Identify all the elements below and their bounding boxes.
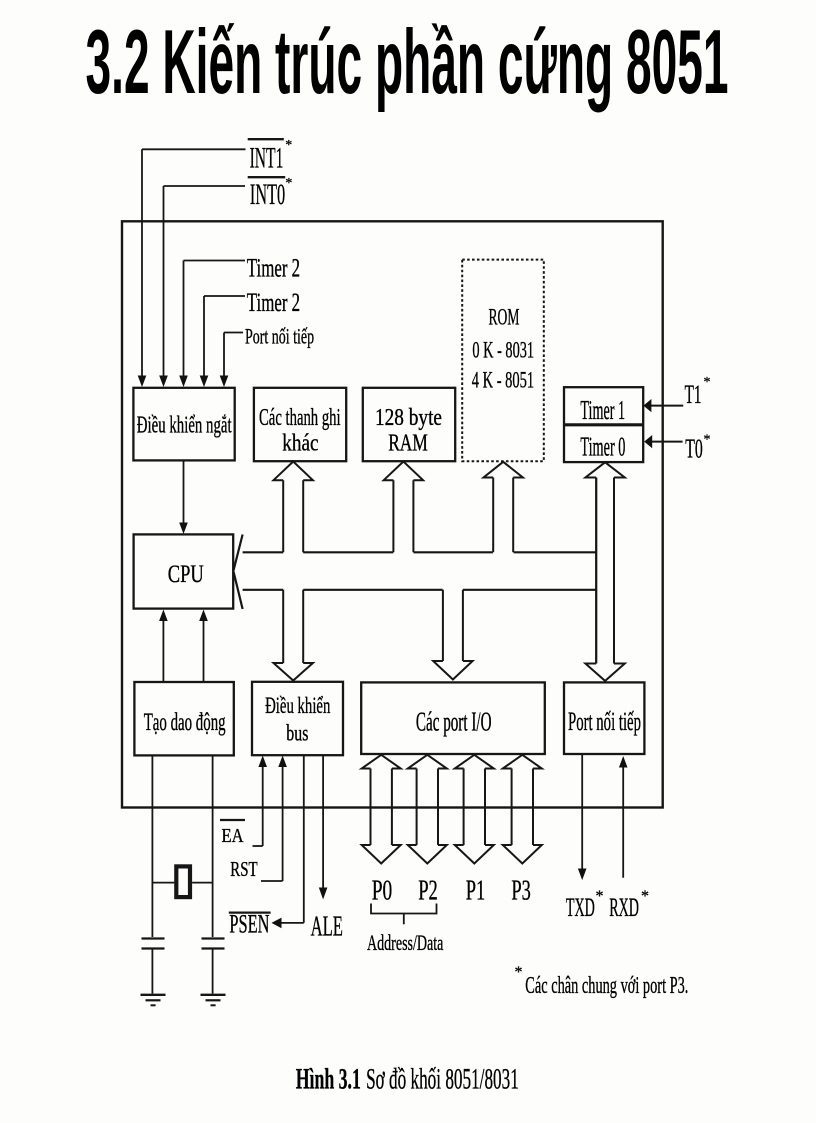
svg-text:*: * (596, 888, 604, 905)
svg-text:EA: EA (222, 825, 244, 847)
svg-text:Port nối tiếp: Port nối tiếp (568, 707, 641, 736)
svg-text:Hình 3.1: Hình 3.1 (296, 1063, 361, 1096)
svg-text:Tạo dao động: Tạo dao động (144, 709, 226, 736)
svg-text:Các chân chung với port P3.: Các chân chung với port P3. (525, 973, 688, 999)
svg-text:ALE: ALE (311, 912, 343, 943)
svg-text:INT0: INT0 (250, 178, 285, 211)
svg-text:*: * (515, 964, 523, 981)
svg-text:*: * (641, 888, 649, 905)
svg-text:T0: T0 (685, 433, 703, 463)
svg-text:Timer 0: Timer 0 (580, 432, 625, 462)
svg-text:ROM: ROM (489, 304, 520, 330)
svg-text:RXD: RXD (609, 893, 639, 922)
svg-text:RST: RST (230, 857, 257, 881)
svg-text:*: * (704, 375, 711, 390)
svg-text:128 byte: 128 byte (375, 405, 442, 431)
svg-text:Port nối tiếp: Port nối tiếp (245, 324, 314, 349)
svg-text:Timer 1: Timer 1 (580, 395, 625, 425)
svg-text:Các thanh ghi: Các thanh ghi (259, 405, 341, 431)
svg-text:Timer 2: Timer 2 (247, 288, 300, 317)
svg-text:3.2 Kiến trúc phần cứng 8051: 3.2 Kiến trúc phần cứng 8051 (86, 12, 729, 113)
svg-text:bus: bus (286, 721, 308, 746)
svg-text:TXD: TXD (566, 893, 595, 922)
svg-text:PSEN: PSEN (229, 910, 269, 939)
svg-text:CPU: CPU (168, 561, 204, 588)
svg-text:Timer 2: Timer 2 (247, 253, 300, 282)
svg-text:Điều khiển: Điều khiển (265, 693, 331, 718)
svg-text:P0: P0 (372, 875, 393, 907)
svg-text:khác: khác (282, 430, 318, 456)
svg-text:Các port I/O: Các port I/O (416, 706, 492, 736)
svg-text:RAM: RAM (388, 430, 428, 456)
svg-text:4 K - 8051: 4 K - 8051 (472, 368, 534, 394)
svg-text:P2: P2 (418, 875, 438, 907)
svg-text:Sơ đồ khối 8051/8031: Sơ đồ khối 8051/8031 (366, 1063, 519, 1096)
svg-text:T1: T1 (685, 380, 702, 409)
svg-text:INT1: INT1 (250, 141, 284, 174)
svg-text:P3: P3 (511, 875, 531, 907)
svg-text:0 K - 8031: 0 K - 8031 (472, 337, 534, 363)
svg-text:P1: P1 (466, 875, 486, 907)
svg-text:Address/Data: Address/Data (367, 930, 443, 955)
svg-text:*: * (285, 176, 292, 191)
svg-text:*: * (704, 433, 711, 448)
svg-text:*: * (285, 138, 292, 153)
svg-text:Điều khiển ngắt: Điều khiển ngắt (137, 413, 232, 439)
